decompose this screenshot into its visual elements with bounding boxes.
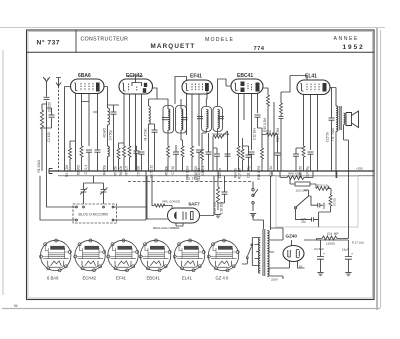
wire T3 [336,88,349,179]
T4 primary winding [267,231,269,277]
wire EL41 pins [304,88,337,172]
wire R6 [123,157,125,171]
resistor R8 [167,146,170,157]
wire C13 [274,102,278,171]
variable capacitor CV1 [80,183,88,198]
capacitor C13 [275,153,281,155]
wire C16 [218,176,225,203]
svg-text:R3 2,2M: R3 2,2M [65,165,69,177]
capacitor C12 coupling [255,115,261,117]
resistor R6 [123,146,126,157]
T2 tuning capacitor left [197,117,203,119]
header divider [75,30,77,52]
ground C21 [345,273,351,276]
voltage selector [248,247,252,257]
svg-text:R17 0,5M: R17 0,5M [276,128,280,142]
wire block left [40,171,76,220]
capacitor C21 filter [345,252,352,272]
svg-text:MODELE: MODELE [205,37,234,43]
wire R22 [262,135,278,154]
svg-text:R.27 1kΩ: R.27 1kΩ [352,241,364,245]
socket GZ40 [207,239,239,272]
wire gang to block [84,198,104,205]
tube GZ40 rectifier [283,246,304,262]
coil L1 [65,87,71,172]
svg-text:1952: 1952 [343,44,365,51]
svg-text:41 472kc: 41 472kc [143,128,147,141]
socket ECH42 [74,239,106,272]
tube ECH42 U2 [119,79,153,94]
wire EF41 top grid [175,77,187,105]
wire GZ40 bottom [269,261,305,273]
switch S1 on-off [253,182,258,212]
svg-text:R1 22kΩ: R1 22kΩ [37,159,41,172]
wire T2 bottom [202,129,218,150]
resistor R18 cathode [302,146,305,157]
wire R28 [152,176,172,209]
T3 secondary [344,113,346,125]
svg-text:GZ40: GZ40 [286,234,298,239]
EBC41 anode [256,83,260,92]
capacitor C14 cathode [308,152,314,154]
wire R15 [263,88,268,171]
wire C19b [296,148,304,171]
EL41 internals [300,84,303,92]
svg-text:C11 50µ: C11 50µ [246,166,250,178]
svg-text:C8 0,1: C8 0,1 [201,166,205,176]
T1 secondary winding [181,109,183,130]
socket EBC41 [139,239,171,272]
svg-text:R11 0,5M: R11 0,5M [197,168,201,182]
svg-text:C7 50: C7 50 [171,166,175,175]
wire R30 [331,171,337,212]
wire C4 [108,105,120,171]
capacitor C8 [196,150,202,152]
wire T4 bottom [270,252,284,279]
wire block right [114,171,146,220]
oscillator coil L3 [149,106,151,124]
T4 core [263,229,265,276]
wire C7 [175,145,177,171]
coil L2b [108,146,110,156]
wire selector [242,259,247,265]
bus end connector [49,169,53,174]
svg-text:R8 30k: R8 30k [164,166,168,177]
page right edge double [376,28,378,310]
svg-text:TR. 7000: TR. 7000 [331,128,335,141]
wire antenna lead [46,87,48,171]
svg-text:MARQUETT: MARQUETT [151,43,196,50]
wire R19 [217,171,219,210]
svg-text:C13 5n: C13 5n [269,166,273,177]
main HT bus [49,170,374,172]
svg-text:94: 94 [14,304,18,308]
svg-text:CONSTRUCTEUR: CONSTRUCTEUR [81,37,129,43]
svg-text:PRL.CONCE: PRL.CONCE [163,200,181,204]
T2 tuning capacitor right [218,117,224,119]
resistor R17 grid EL41 [280,103,283,114]
resistor R29 zigzag [317,187,330,191]
wire R26 [290,178,316,189]
svg-text:R7 0,5: R7 0,5 [125,166,129,176]
wire P2 wiper [213,131,228,171]
wire C5a [136,146,137,171]
capacitor C7 [173,152,179,154]
svg-text:Co 50,32: Co 50,32 [149,165,153,178]
tube EBC41 U4 [231,79,263,94]
socket 6BA6 [39,239,71,272]
svg-text:R2 300: R2 300 [76,165,80,176]
socket EL41 [173,239,205,272]
capacitor C10b [246,155,252,157]
svg-text:R19 47k: R19 47k [213,202,217,214]
svg-text:ANNEE: ANNEE [334,36,359,42]
6BA6 anode [96,83,100,92]
svg-text:220V: 220V [271,278,278,282]
wire earth dashed [58,86,60,171]
svg-text:C16 20n: C16 20n [219,202,223,214]
wire mains vertical [271,171,273,176]
svg-text:EF41: EF41 [116,276,127,281]
capacitor C16 [222,192,228,194]
svg-text:R6 10k: R6 10k [119,166,123,177]
header band bottom rule [27,51,375,53]
wire T1 top [149,88,182,109]
capacitor C11 [249,152,255,154]
tuning block box [73,204,117,223]
resistor R7 [128,146,131,157]
wire R25 [280,171,313,178]
svg-text:EBC41: EBC41 [147,276,161,281]
wire choke [317,236,349,240]
capacitor C20 [309,217,319,221]
resistor R9 [181,146,184,157]
resistor R22 horizontal [266,133,277,136]
tube 6BA6 U1 [71,79,105,94]
resistor R30 vertical [329,195,332,206]
resistor R11 diode load [201,149,204,160]
6BA6 internals [74,83,77,91]
svg-text:+250: +250 [356,167,363,171]
wire R29 [328,189,331,195]
T2 right can [213,107,223,132]
svg-text:2x16µF: 2x16µF [314,247,324,251]
wire EL41 grid top [281,76,307,93]
heater bus 6V3 [128,181,253,183]
switch S2 [296,190,309,212]
ground R19 [215,215,221,218]
svg-text:C14 50µ: C14 50µ [305,166,309,178]
T4 selector bracket [252,238,258,266]
filter block outline [276,176,358,227]
resistor R16 [261,148,264,159]
T1 tuning capacitor right [182,118,188,120]
wire EBC41 pins [239,94,258,151]
svg-text:C15 5n: C15 5n [325,132,329,143]
svg-text:N° 737: N° 737 [37,39,61,47]
svg-text:REGLAGE.OMBRE: REGLAGE.OMBRE [153,226,179,230]
resistor R14 [237,146,240,157]
tube EL41 U5 [297,80,330,95]
wire R10 [191,157,193,171]
svg-text:R15 0,5M: R15 0,5M [263,118,267,132]
svg-text:EF41: EF41 [190,74,202,80]
wire HT top line [270,228,349,240]
wire choke to caps [347,240,349,252]
wire C6 [149,124,155,171]
svg-text:P.2 VOLUME: P.2 VOLUME [213,132,230,136]
wire C12 [258,117,263,128]
svg-text:120 10W: 120 10W [296,189,308,193]
wire filter right [348,171,350,236]
page left edge [2,50,4,295]
T2 primary winding [206,110,208,129]
wire C15 [331,88,333,172]
wire screen junction [93,112,98,171]
GZ40 internals [288,250,291,257]
capacitor C3 [86,150,92,152]
svg-text:EBC41: EBC41 [237,73,253,79]
wire L2b to bus [107,156,109,171]
wire block to 6AF7 [147,176,168,219]
resistor R19 [216,187,219,202]
capacitor C2 [49,115,55,117]
choke CH field coil [322,236,337,240]
svg-text:50µF: 50µF [322,202,326,209]
capacitor C9b [214,154,220,156]
ECH42 anode [144,83,147,87]
wire R16 [261,128,263,171]
6AF7 internals [174,212,176,220]
resistor R26 box [295,182,310,186]
wire C8 [198,152,200,171]
T2 secondary winding [218,110,220,129]
wire R7 [129,157,131,171]
IF transformer T1 left can [163,106,174,134]
svg-text:40,WO: 40,WO [102,127,106,137]
svg-text:C4 50p: C4 50p [109,130,113,141]
power transformer T4 secondary winding [259,238,261,274]
svg-text:C10 5n: C10 5n [218,168,222,179]
wire 6BA6 pins [76,94,98,172]
ECH42 internals [122,83,125,91]
capacitor C10 [225,154,231,156]
wire T4 feeds top [253,176,271,230]
capacitor C6 padder [152,130,158,132]
svg-text:C3 0,1: C3 0,1 [84,165,88,175]
svg-text:6BA6: 6BA6 [78,73,91,79]
socket EF41 [107,239,139,272]
svg-text:R.3: R.3 [267,129,272,133]
page bottom edge [2,308,380,310]
svg-text:R9 0,1M: R9 0,1M [186,166,190,178]
coil L2 IF primary [108,108,110,125]
ground C20 [317,273,323,276]
wire gang feed [84,176,104,183]
wire EBC41 grid left [218,79,231,107]
wire C10b [243,146,249,171]
wire R2 to bus [81,157,83,171]
wire C20 [296,212,331,227]
T3 core [340,106,341,130]
wire C9b [213,148,217,171]
wire 6AF7 [176,176,214,226]
wire R5 [119,143,125,171]
svg-text:CH. HP: CH. HP [327,232,339,236]
svg-text:+: + [323,252,325,256]
svg-text:6 BA6: 6 BA6 [47,276,59,281]
capacitor C5 [139,152,145,154]
T1 primary winding [168,109,170,130]
capacitor C18 [314,203,324,208]
tube 6AF7 magic eye [168,208,200,223]
EF41 anode [205,83,209,91]
capacitor C4 [111,112,117,114]
capacitor C19b [293,154,299,156]
block terminals [76,206,78,208]
wire C2 [42,108,52,128]
svg-text:R18 150: R18 150 [298,166,302,178]
svg-text:R4 50k: R4 50k [102,165,106,176]
svg-text:ECH42: ECH42 [83,276,97,281]
earth arrow symbol [56,78,61,87]
resistor R2 [80,146,83,157]
svg-text:774: 774 [254,46,265,52]
capacitor C5a [134,151,140,153]
tube EF41 U3 [182,80,213,94]
capacitor C20 filter [317,240,324,272]
svg-text:C2 150: C2 150 [47,132,51,143]
svg-text:R16 0,7M: R16 0,7M [257,166,261,180]
EF41 internals [185,84,188,91]
svg-text:C12 10n: C12 10n [252,128,256,140]
wire C5 [141,154,143,171]
resistor R25 zigzag [287,176,304,180]
capacitor C9 [206,152,212,154]
wire R14 [238,157,240,171]
wire C11 [251,154,253,171]
capacitor C17b [279,116,284,118]
svg-text:1200Ω: 1200Ω [326,242,336,246]
wire EF41 pins [187,91,208,146]
schematic frame [27,30,375,300]
output transformer T3 primary [336,106,338,131]
resistor R15 grid 0.5M [267,95,270,106]
svg-text:GZ 4 0: GZ 4 0 [216,276,229,281]
wire C9 [208,133,210,171]
T1 right can [176,106,187,134]
wire R11 [201,160,203,171]
svg-text:R13 1M: R13 1M [237,168,241,180]
loudspeaker LS1 [346,111,359,128]
svg-text:R29 2,2k: R29 2,2k [317,183,329,187]
wire EF41 anode to T2 [205,99,208,107]
ground S1 [250,214,256,217]
resistor R10 [191,146,194,157]
resistor R5 [117,148,120,159]
svg-text:R14 2k: R14 2k [233,168,237,179]
wire R18 [303,157,305,171]
wire C3 [88,152,90,171]
capacitor C3b [95,150,101,152]
wire T1 bottom [168,130,181,146]
svg-text:6AF7: 6AF7 [189,202,201,207]
wire R13 [242,138,244,171]
antenna [43,77,50,87]
wire R3 [70,141,76,171]
svg-text:5V: 5V [299,265,303,269]
wire C14 [310,154,312,171]
svg-text:C1 220: C1 220 [48,102,52,113]
wire R1 [42,104,47,171]
svg-text:BLOC D'ACCORD: BLOC D'ACCORD [79,213,109,217]
svg-text:EL41: EL41 [182,276,192,281]
svg-text:16µF: 16µF [342,248,349,252]
wire ECH42 pins [124,94,142,171]
page top edge [0,27,385,29]
svg-text:R5 25k: R5 25k [113,166,117,177]
EBC41 internals [234,83,237,91]
variable capacitor CV2 [100,183,108,198]
resistor R13 [241,149,244,160]
EL41 anode [323,83,327,92]
wire R9 [181,140,183,171]
wire R8 [167,157,169,171]
wire R17 [280,92,282,171]
potentiometer P2 [213,135,224,138]
resistor R28 horizontal [154,204,165,207]
capacitor C15 tone [329,118,335,120]
svg-text:C5 100: C5 100 [137,166,141,177]
second bus [58,175,374,177]
wire ECH42 grid cap [128,76,143,81]
IF transformer T2 left can [202,107,212,132]
resistor R1 [40,110,43,129]
wire C18 [309,196,315,205]
wire GZ40 top [291,240,293,246]
svg-text:87,5Ω: 87,5Ω [333,197,337,206]
capacitor C1 [44,97,50,99]
T1 tuning capacitor left [162,118,168,120]
svg-text:25µ: 25µ [301,220,306,224]
wire L2 [104,87,108,147]
wire L3 [148,99,150,171]
svg-text:+: + [351,252,353,256]
resistor R3 [69,148,72,159]
